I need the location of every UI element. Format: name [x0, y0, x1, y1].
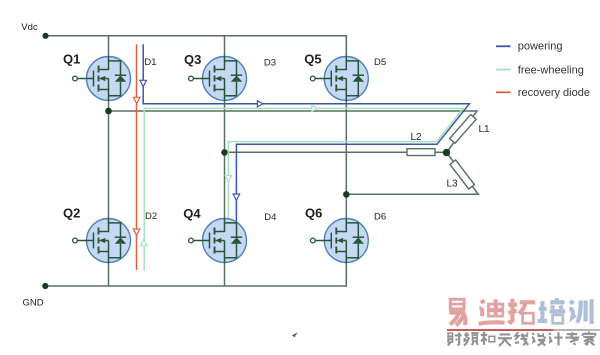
svg-text:free-wheeling: free-wheeling: [518, 64, 584, 76]
svg-text:GND: GND: [23, 297, 44, 308]
svg-text:D6: D6: [374, 211, 386, 222]
svg-text:recovery diode: recovery diode: [518, 87, 590, 99]
svg-text:Q6: Q6: [305, 206, 322, 221]
svg-text:Vdc: Vdc: [21, 22, 38, 33]
svg-text:L2: L2: [411, 132, 423, 143]
svg-text:D3: D3: [264, 57, 276, 68]
svg-text:D4: D4: [264, 212, 276, 223]
svg-text:L1: L1: [479, 124, 491, 135]
svg-text:D1: D1: [144, 57, 156, 68]
svg-text:powering: powering: [518, 41, 563, 53]
svg-text:Q1: Q1: [63, 52, 80, 67]
svg-text:D2: D2: [145, 211, 157, 222]
svg-text:Q4: Q4: [183, 206, 201, 221]
svg-text:Q2: Q2: [63, 205, 80, 220]
svg-text:D5: D5: [374, 57, 386, 68]
svg-text:Q5: Q5: [304, 52, 321, 67]
svg-text:Q3: Q3: [184, 52, 201, 67]
svg-text:L3: L3: [447, 178, 459, 189]
